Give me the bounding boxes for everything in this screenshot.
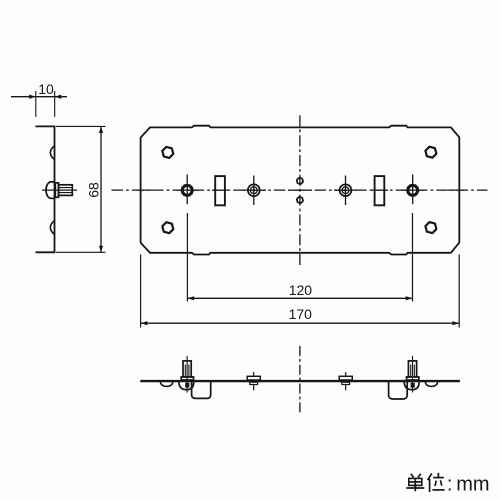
dimension 10 arrows xyxy=(29,95,61,99)
screw hole right crosshair xyxy=(345,176,347,206)
centerline solid overlays at features xyxy=(137,189,464,191)
bottom view vertical centerline xyxy=(299,346,301,414)
bottom view left stud shaft xyxy=(183,361,191,377)
bottom view left stud centerline xyxy=(186,356,188,393)
bottom view screw mark right xyxy=(339,376,352,380)
bottom view right stud clinch block xyxy=(411,383,415,388)
slot right xyxy=(375,176,385,205)
dimension 10 extension lines xyxy=(36,91,55,117)
hexagon hole top-right xyxy=(425,147,436,158)
dimension 68 extension lines xyxy=(56,126,106,252)
dimension 68 line xyxy=(100,126,102,252)
vertical centerline (dash-dot) xyxy=(299,115,301,265)
bottom view screw mark left centerline xyxy=(253,372,255,390)
front view plate outline xyxy=(141,126,460,255)
horizontal centerline (dash-dot) xyxy=(112,189,488,191)
bottom view left stud clinch dome xyxy=(179,382,194,390)
hexagon hole bottom-left xyxy=(162,222,173,233)
svg-text:mm: mm xyxy=(456,473,489,495)
clinch bolt left (black ring) xyxy=(182,185,192,195)
dimension 10 line xyxy=(11,96,67,98)
bottom view hook tab right xyxy=(389,382,408,399)
screw hole right (concentric) xyxy=(340,184,352,196)
dimension 170 extension lines xyxy=(141,255,460,328)
small center hole lower xyxy=(297,197,303,203)
bottom view right stud clinch dome xyxy=(404,382,419,390)
bottom view right stud head xyxy=(407,377,419,380)
bottom view left stud clinch block xyxy=(185,383,189,388)
clinch bolt right (black ring) xyxy=(408,185,418,195)
dimension 170 arrows xyxy=(141,321,460,325)
side view stud centerline xyxy=(42,189,77,191)
side view stud thread lines xyxy=(59,188,73,193)
bottom view hex-flange arc left xyxy=(160,382,173,386)
side view outline (channel bracket) xyxy=(36,126,55,252)
bottom view left stud head xyxy=(181,377,193,380)
bottom view right stud shaft xyxy=(408,361,416,377)
side view flange bump upper xyxy=(50,146,54,159)
slot left xyxy=(215,176,225,205)
side view stud shaft xyxy=(59,185,73,196)
dimension 120 line xyxy=(187,297,412,299)
dimension 120 extension lines xyxy=(187,213,412,302)
screw hole left (concentric) xyxy=(248,184,260,196)
bottom view hook tab left xyxy=(192,382,211,398)
hexagon hole top-left xyxy=(162,147,173,158)
bottom view plate edge line xyxy=(140,380,460,382)
unit note kanji "単" xyxy=(406,474,424,492)
bottom view hex-flange arc right xyxy=(425,382,438,386)
clinch bolt right crosshair xyxy=(412,175,414,205)
unit note kanji "位" xyxy=(428,473,445,492)
dimension 120 arrows xyxy=(187,296,412,300)
svg-text:68: 68 xyxy=(85,182,101,198)
svg-text::: : xyxy=(447,473,453,495)
screw hole left crosshair xyxy=(253,176,255,206)
dimension 68 arrows xyxy=(99,126,103,252)
bottom view right stud centerline xyxy=(412,356,414,393)
small center hole upper xyxy=(297,178,303,184)
side view stud dome xyxy=(46,182,55,199)
clinch bolt left crosshair xyxy=(186,175,188,205)
svg-text:120: 120 xyxy=(289,282,313,298)
bottom view screw mark right centerline xyxy=(345,372,347,390)
svg-text:10: 10 xyxy=(38,81,54,97)
bottom view left stud thread lines xyxy=(185,365,189,377)
bottom view screw mark left xyxy=(247,376,260,380)
bottom view right stud thread lines xyxy=(411,365,415,377)
side view flange bump lower xyxy=(50,221,54,234)
side view stud head xyxy=(55,183,58,197)
svg-text:170: 170 xyxy=(289,306,313,322)
hexagon hole bottom-right xyxy=(425,222,436,233)
dimension 170 line xyxy=(141,322,460,324)
